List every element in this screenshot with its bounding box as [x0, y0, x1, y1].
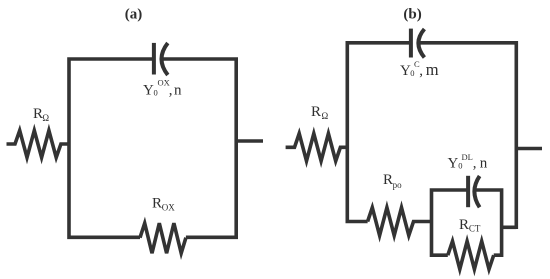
wire: stub from nested box to right rail (b): [502, 226, 516, 230]
wire: output stub (b): [516, 147, 542, 151]
label R_CT (b): [459, 217, 481, 234]
svg-text:,: ,: [169, 83, 173, 99]
wire: nested box top-left + left edge + bottom-left segments (b): [432, 190, 467, 255]
label R_po (b): [383, 172, 402, 190]
wire: input lead (b) + resistor R_Omega (b): [286, 134, 348, 162]
svg-text:Y: Y: [143, 83, 154, 99]
wire: top-right + right vertical segments (b): [420, 43, 516, 229]
label Y0_C , m (b): [400, 59, 439, 79]
svg-text:DL: DL: [462, 152, 473, 162]
svg-text:po: po: [393, 180, 403, 190]
label Y0_OX , n (a): [143, 78, 182, 99]
svg-text:0: 0: [410, 68, 414, 78]
svg-text:n: n: [174, 83, 182, 99]
svg-text:,: ,: [473, 156, 477, 172]
svg-text:CT: CT: [469, 224, 481, 234]
svg-text:m: m: [426, 60, 439, 79]
wire: output stub (a): [236, 139, 263, 143]
capacitor CPE Y0_OX left plate (a): [152, 43, 156, 75]
label (a): [125, 7, 143, 23]
wire: nested box bottom-right + right edge + top-right segments (b): [476, 190, 502, 255]
svg-text:Ω: Ω: [322, 111, 329, 121]
svg-text:Y: Y: [448, 156, 459, 172]
capacitor CPE Y0_DL left plate (b): [466, 176, 470, 207]
capacitor CPE Y0_C left plate (b): [409, 29, 413, 58]
label Y0_DL , n (b): [448, 152, 488, 172]
capacitor CPE Y0_DL curved plate (b): [474, 176, 479, 207]
wire: input lead + loop left + top-left + bottom-left segments (a): [69, 59, 154, 237]
capacitor CPE Y0_C curved plate (b): [418, 29, 424, 58]
svg-text:OX: OX: [162, 203, 175, 213]
label R_OX (a): [152, 196, 175, 213]
svg-text:n: n: [480, 156, 488, 172]
svg-text:R: R: [459, 217, 469, 233]
svg-text:R: R: [311, 104, 321, 120]
wire: top-left + left vertical + bottom-left segments (b): [347, 43, 411, 222]
svg-text:0: 0: [154, 88, 158, 98]
svg-text:Ω: Ω: [42, 113, 49, 123]
svg-text:0: 0: [458, 161, 462, 171]
capacitor CPE Y0_OX curved plate (a): [162, 43, 168, 75]
svg-text:R: R: [383, 172, 393, 188]
resistor R_CT (b): [448, 241, 494, 269]
svg-text:,: ,: [419, 63, 423, 79]
svg-text:(a): (a): [125, 7, 143, 23]
svg-text:(b): (b): [403, 7, 421, 23]
label (b): [403, 7, 421, 23]
wire: bottom-right + right vertical + top-right segments (a): [162, 59, 236, 237]
resistor R_po (b): [368, 208, 431, 236]
label R_Omega (b): [311, 104, 329, 121]
resistor R_OX (a): [140, 223, 186, 253]
label R_Omega (a): [33, 106, 49, 123]
resistor R_Omega (a): [7, 131, 71, 158]
svg-text:R: R: [152, 196, 162, 212]
